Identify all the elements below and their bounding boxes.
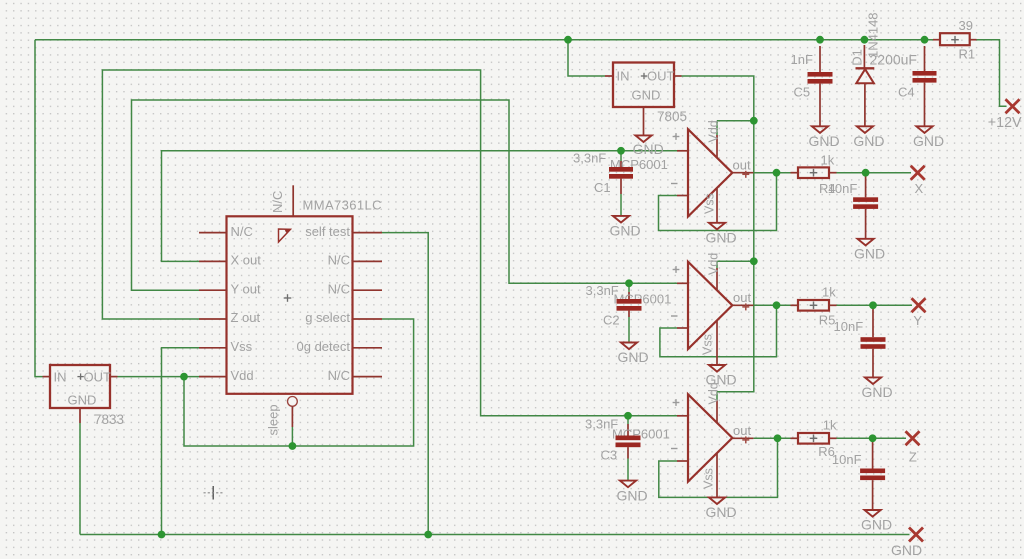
svg-text:N/C: N/C (328, 368, 350, 383)
svg-text:Z: Z (909, 450, 917, 465)
svg-text:0g detect: 0g detect (297, 339, 351, 354)
svg-text:self test: self test (305, 224, 350, 239)
svg-text:GND: GND (891, 542, 922, 558)
svg-text:Vss: Vss (231, 339, 253, 354)
svg-text:1k: 1k (822, 285, 836, 300)
svg-text:out: out (733, 157, 751, 172)
svg-text:GND: GND (616, 487, 647, 503)
svg-text:1k: 1k (823, 418, 837, 433)
svg-text:X out: X out (231, 253, 262, 268)
svg-text:C1: C1 (594, 180, 611, 195)
svg-text:GND: GND (617, 349, 648, 365)
svg-text:Vss: Vss (703, 193, 717, 214)
svg-text:Vdd: Vdd (707, 382, 721, 404)
svg-text:Vss: Vss (701, 334, 715, 355)
svg-text:GND: GND (808, 133, 839, 149)
svg-text:GND: GND (853, 133, 884, 149)
svg-text:GND: GND (861, 517, 892, 533)
svg-text:N/C: N/C (328, 281, 350, 296)
svg-text:C3: C3 (601, 448, 618, 463)
svg-text:Y out: Y out (231, 281, 262, 296)
svg-text:+12V: +12V (988, 115, 1022, 131)
svg-text:7833: 7833 (94, 412, 124, 427)
svg-text:GND: GND (705, 230, 736, 246)
svg-text:N/C: N/C (231, 224, 253, 239)
svg-text:IN: IN (54, 370, 67, 385)
svg-text:10nF: 10nF (832, 452, 862, 467)
svg-text:N/C: N/C (270, 191, 285, 213)
svg-text:OUT: OUT (647, 69, 675, 84)
svg-text:10nF: 10nF (828, 181, 858, 196)
svg-text:Vdd: Vdd (707, 253, 721, 275)
svg-text:Z out: Z out (231, 310, 261, 325)
svg-text:Vdd: Vdd (231, 368, 254, 383)
svg-text:7805: 7805 (657, 109, 687, 124)
svg-text:GND: GND (705, 504, 736, 520)
svg-text:GND: GND (861, 384, 892, 400)
svg-text:1k: 1k (821, 153, 835, 168)
svg-text:Y: Y (913, 313, 922, 328)
svg-text:1nF: 1nF (791, 52, 813, 67)
svg-text:GND: GND (609, 223, 640, 239)
svg-text:39: 39 (959, 18, 973, 33)
svg-text:g select: g select (305, 310, 350, 325)
svg-text:3,3nF: 3,3nF (573, 151, 606, 166)
svg-text:D1: D1 (850, 49, 865, 66)
svg-text:10nF: 10nF (834, 319, 864, 334)
svg-text:GND: GND (854, 246, 885, 262)
svg-text:N/C: N/C (328, 253, 350, 268)
svg-text:out: out (733, 423, 751, 438)
svg-text:out: out (733, 290, 751, 305)
svg-text:sleep: sleep (266, 404, 281, 435)
svg-text:C2: C2 (603, 313, 620, 328)
svg-text:GND: GND (633, 141, 664, 157)
svg-text:C4: C4 (898, 85, 915, 100)
svg-text:GND: GND (68, 393, 97, 408)
svg-text:IN: IN (617, 69, 630, 84)
svg-text:GND: GND (913, 133, 944, 149)
svg-text:MMA7361LC: MMA7361LC (303, 198, 382, 213)
svg-text:Vdd: Vdd (707, 120, 721, 142)
svg-text:C5: C5 (794, 85, 811, 100)
svg-text:OUT: OUT (84, 370, 112, 385)
svg-text:R1: R1 (959, 47, 976, 62)
svg-text:Vss: Vss (702, 468, 716, 489)
svg-text:X: X (915, 181, 924, 196)
svg-text:2200uF: 2200uF (870, 52, 917, 68)
svg-text:GND: GND (632, 88, 661, 103)
